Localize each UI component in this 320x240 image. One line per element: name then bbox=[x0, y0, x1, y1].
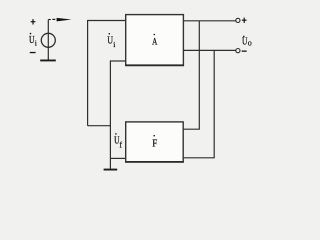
ground bbox=[104, 169, 118, 171]
svg-text:i: i bbox=[113, 40, 115, 49]
ground bbox=[40, 60, 56, 62]
wire bbox=[109, 60, 111, 168]
label F bbox=[152, 135, 157, 149]
amplifier block A bottom edge bbox=[125, 64, 184, 66]
polarity + (source) bbox=[31, 19, 36, 24]
svg-text:F: F bbox=[152, 138, 157, 149]
label Uf bbox=[114, 133, 122, 149]
voltage source Ui bbox=[41, 33, 55, 47]
wire bbox=[183, 20, 235, 22]
feedback block F bottom edge bbox=[125, 161, 184, 163]
label Ui (source) bbox=[29, 33, 37, 48]
wire bbox=[183, 49, 235, 51]
svg-text:f: f bbox=[119, 140, 122, 149]
wire bbox=[88, 125, 111, 127]
amplifier block A bbox=[126, 15, 184, 66]
wire bbox=[110, 60, 125, 62]
wire bbox=[183, 21, 199, 129]
feedback block F bbox=[126, 122, 184, 162]
terminal + bbox=[236, 18, 247, 23]
wire bbox=[183, 50, 214, 157]
label Uo bbox=[242, 36, 252, 48]
wire bbox=[110, 157, 125, 159]
svg-text:o: o bbox=[248, 38, 252, 47]
wire bbox=[47, 20, 49, 60]
polarity - (source) bbox=[30, 52, 36, 53]
svg-text:A: A bbox=[152, 36, 157, 47]
signal flow arrow bbox=[48, 18, 71, 22]
terminal - bbox=[236, 49, 247, 53]
label A bbox=[152, 34, 157, 48]
wire bbox=[88, 21, 126, 126]
label Ui (amplifier input) bbox=[107, 33, 115, 49]
svg-text:i: i bbox=[35, 39, 37, 48]
